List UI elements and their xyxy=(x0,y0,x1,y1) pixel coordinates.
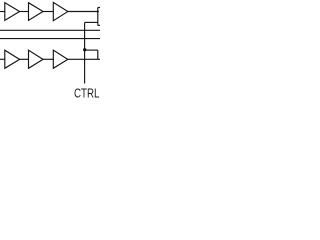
wire branch vertical down xyxy=(97,50,99,59)
node junction dot on CTRL line xyxy=(83,48,86,51)
wire CTRL vertical xyxy=(84,22,86,83)
svg-text:CTRL: CTRL xyxy=(74,86,99,101)
wire row1 input xyxy=(0,11,5,13)
wire bus line upper xyxy=(0,29,100,31)
wire U4 to U5 xyxy=(19,58,29,60)
wire U3 output to right node xyxy=(67,11,97,13)
wire row2 output xyxy=(67,58,100,60)
buffer U5 xyxy=(29,50,44,68)
wire U1 to U2 xyxy=(19,11,29,13)
node junction dot top right xyxy=(97,10,99,12)
wire branch from node to right xyxy=(85,49,98,51)
buffer U6 xyxy=(53,50,68,68)
wire U2 to U3 xyxy=(43,11,54,13)
buffer U1 xyxy=(5,3,20,21)
wire right vertical upper xyxy=(97,8,99,26)
wire bus line lower xyxy=(0,38,100,40)
wire U5 to U6 xyxy=(43,58,54,60)
wire stub right exit at y25 xyxy=(98,24,100,26)
wire row2 input xyxy=(0,58,5,60)
buffer U3 xyxy=(53,2,68,20)
wire stub top right exit xyxy=(98,7,100,9)
buffer U4 xyxy=(5,50,20,68)
buffer U2 xyxy=(29,3,44,21)
wire step to ctrl column xyxy=(85,21,98,23)
